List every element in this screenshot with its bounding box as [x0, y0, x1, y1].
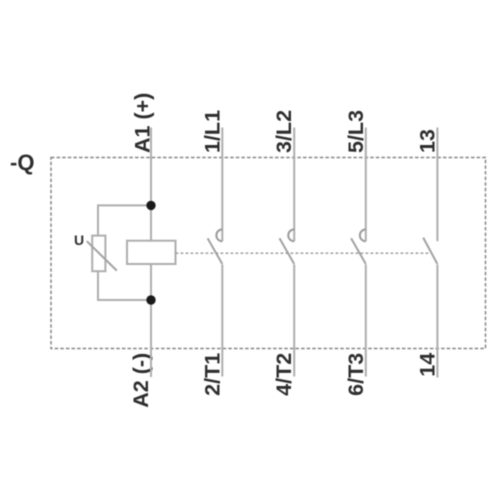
svg-text:-Q: -Q: [10, 150, 34, 175]
svg-text:2/T1: 2/T1: [200, 353, 224, 396]
svg-text:6/T3: 6/T3: [344, 353, 368, 396]
svg-text:4/T2: 4/T2: [272, 353, 296, 396]
svg-text:A2 (-): A2 (-): [129, 353, 153, 408]
svg-text:5/L3: 5/L3: [344, 110, 368, 153]
svg-text:13: 13: [415, 129, 439, 153]
svg-text:3/L2: 3/L2: [272, 110, 296, 153]
svg-text:14: 14: [415, 353, 439, 377]
svg-text:U: U: [74, 232, 84, 248]
svg-text:1/L1: 1/L1: [200, 110, 224, 153]
